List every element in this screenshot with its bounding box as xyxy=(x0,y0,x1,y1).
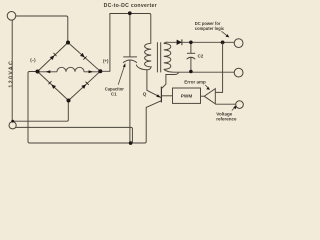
base wire to PWM xyxy=(162,95,173,97)
diode D3 bottom-left edge xyxy=(51,85,56,89)
AC terminal top xyxy=(7,12,16,21)
svg-text:Q: Q xyxy=(143,92,147,97)
arrowhead right on inductor wire xyxy=(89,70,94,73)
transformer T1 core xyxy=(157,42,160,72)
wire: bridge edge top-right xyxy=(68,43,100,72)
wire: bridge edge bottom-right xyxy=(69,71,101,100)
node: feedback tap junction xyxy=(221,41,225,45)
collector path up to transformer side xyxy=(161,73,178,89)
svg-text:reference: reference xyxy=(216,116,237,121)
wire: primary bottom down to Q xyxy=(147,69,161,97)
svg-text:Error amp: Error amp xyxy=(184,79,206,84)
svg-text:120VAC: 120VAC xyxy=(8,60,14,88)
PWM box xyxy=(173,88,201,103)
inductor L1 (bridge middle coil) xyxy=(57,67,84,72)
diode D2 top-right edge xyxy=(80,53,85,58)
wire: bridge horizontal diagonal xyxy=(38,71,101,73)
wire: feedback from +DC bus down to error amp xyxy=(216,42,223,92)
wire: bridge edge top-left xyxy=(38,43,69,72)
capacitor C1 xyxy=(123,57,137,63)
wire: +DC output bus xyxy=(182,41,234,43)
output terminal bottom xyxy=(234,68,243,77)
node: C2 top junction xyxy=(189,41,193,45)
wire: capacitor C1 top branch xyxy=(129,14,131,57)
voltage reference terminal xyxy=(236,101,244,109)
bridge rectifier diamond wires xyxy=(38,43,101,101)
node: bridge right vertex xyxy=(98,69,102,73)
wire: bridge (+) right vertex up to top bus xyxy=(100,14,110,72)
arrowhead left on inductor wire xyxy=(46,70,51,73)
node: bridge top vertex xyxy=(66,41,70,45)
wire: error amp output to PWM xyxy=(201,95,205,97)
wire: bridge edge bottom-left xyxy=(38,72,69,101)
output terminal top xyxy=(234,39,243,48)
svg-text:PWM: PWM xyxy=(181,94,193,99)
transformer T1 secondary winding xyxy=(164,42,235,72)
node: bridge bottom vertex xyxy=(67,99,71,103)
svg-text:(+): (+) xyxy=(103,59,109,64)
emitter arrowhead xyxy=(156,94,160,97)
svg-text:DC-to-DC converter: DC-to-DC converter xyxy=(104,3,157,9)
node: ground rail junction xyxy=(129,141,133,145)
wire: left vertical between AC terminals xyxy=(11,20,13,119)
capacitor C2 xyxy=(187,42,196,70)
wire: top DC bus to transformer primary xyxy=(110,14,151,43)
diode D5 output rectifier xyxy=(177,40,182,45)
svg-text:C1: C1 xyxy=(111,91,117,96)
wire: voltage reference to error amp xyxy=(215,103,235,105)
svg-text:(–): (–) xyxy=(30,58,36,63)
wire: capacitor C1 bottom to ground rail xyxy=(129,61,131,143)
wire: bridge bottom vertex down and left to AC junction xyxy=(13,103,68,122)
base bar xyxy=(160,87,162,103)
svg-text:computer logic: computer logic xyxy=(195,26,225,31)
diode D4 bottom-right edge xyxy=(81,84,86,89)
wire: bridge (-) to left ground rail and bottom rail to Q emitter xyxy=(28,72,161,144)
node: junction above bottom AC terminal xyxy=(11,120,14,123)
node: C2 bottom junction xyxy=(189,70,193,74)
transformer T1 primary winding xyxy=(136,43,161,97)
wire: bottom AC terminal to ground rail xyxy=(16,127,132,142)
node: bridge left vertex xyxy=(36,70,40,74)
error amp U1 triangle xyxy=(204,89,215,104)
wire: secondary bottom to output return rail xyxy=(164,69,235,72)
svg-text:C2: C2 xyxy=(198,53,204,58)
diode D1 top-left edge xyxy=(50,56,55,61)
wire: top AC terminal to bridge top xyxy=(16,16,68,42)
wire: secondary top to output diode xyxy=(164,42,177,43)
AC terminal bottom xyxy=(9,122,16,129)
node: top bus capacitor junction xyxy=(128,11,132,15)
